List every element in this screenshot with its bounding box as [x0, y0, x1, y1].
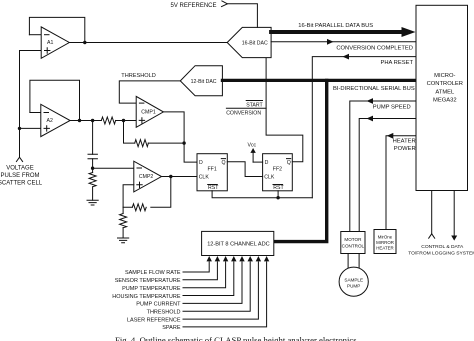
wire CMP1 output to FF1 D [163, 112, 197, 162]
wire ADC input 2 sensor temperature [183, 256, 220, 280]
svg-text:16-Bit DAC: 16-Bit DAC [242, 40, 268, 46]
wire CMP2 non-inverting input [123, 185, 134, 208]
svg-text:12-BIT 8 CHANNEL ADC: 12-BIT 8 CHANNEL ADC [207, 241, 269, 247]
dac U3 12-bit [180, 66, 222, 96]
svg-text:SCATTER CELL: SCATTER CELL [0, 180, 43, 186]
svg-text:5V REFERENCE: 5V REFERENCE [171, 3, 217, 9]
svg-text:Q: Q [222, 160, 226, 166]
svg-text:CONTROLER: CONTROLER [427, 81, 463, 87]
svg-text:MEGA32: MEGA32 [433, 98, 457, 104]
svg-text:D: D [199, 160, 203, 166]
wire ADC input 5 pump current [183, 256, 245, 303]
capacitor C1 [88, 121, 97, 169]
wire control and data to logging system [429, 191, 458, 241]
wire start conversion stub [226, 107, 266, 109]
svg-text:SAMPLE FLOW RATE: SAMPLE FLOW RATE [125, 270, 181, 276]
svg-text:CONTROL & DATA: CONTROL & DATA [421, 244, 464, 250]
ground GND2 [118, 238, 129, 243]
wire conversion completed [271, 39, 416, 52]
svg-text:PUMP: PUMP [347, 284, 360, 289]
wire motor control second [359, 116, 416, 232]
wire ADC input 3 pump temperature [183, 256, 228, 288]
wire ADC input 6 threshold [183, 256, 253, 311]
svg-text:CONTROL: CONTROL [342, 244, 365, 249]
svg-text:A2: A2 [47, 118, 53, 124]
wire PHA reset [312, 54, 416, 198]
svg-text:PUMP TEMPERATURE: PUMP TEMPERATURE [122, 286, 181, 292]
svg-text:START: START [246, 102, 263, 108]
dac U2 16-bit [227, 27, 271, 57]
node A1 output junction [83, 41, 86, 44]
adc U4 12-bit 8 channel [202, 231, 274, 255]
wire RC node to CMP2 inverting input [93, 167, 134, 169]
svg-text:Fig. 4. Outline schematic of: Fig. 4. Outline schematic of CLASP pulse… [115, 335, 357, 341]
svg-text:BI-DIRECTIONAL SERIAL BUS: BI-DIRECTIONAL SERIAL BUS [333, 86, 415, 92]
wire A2 output [70, 120, 136, 122]
wire ADC input 4 housing temperature [183, 256, 237, 296]
label control and data [408, 244, 474, 257]
wire CMP2 output to FF1 CLK [162, 176, 198, 178]
wire FF1 Q to FF2 CLK [227, 162, 262, 177]
op-amp A2 [41, 104, 70, 136]
wire ADC input 1 sample flow rate [183, 256, 212, 272]
resistor R5 [120, 207, 127, 238]
svg-text:A1: A1 [47, 40, 53, 46]
svg-text:RST: RST [208, 185, 219, 191]
resistor R1 [101, 117, 115, 124]
node RC junction [91, 167, 94, 170]
sample pump [339, 267, 368, 296]
svg-text:THRESHOLD: THRESHOLD [121, 73, 156, 79]
resistor R3 [135, 140, 149, 147]
svg-text:MirOne: MirOne [378, 234, 393, 239]
svg-text:FF1: FF1 [208, 167, 217, 173]
bus 16-bit parallel data [271, 23, 415, 37]
wire A1 feedback [29, 17, 84, 42]
svg-text:PUMP CURRENT: PUMP CURRENT [136, 302, 181, 308]
wire A1 inverting input [29, 34, 41, 36]
motor controller box [341, 232, 365, 254]
svg-text:PUMP SPEED: PUMP SPEED [373, 105, 411, 111]
microcontroller U5 [416, 5, 468, 190]
bus bi-directional serial [222, 80, 416, 241]
svg-text:12-Bit DAC: 12-Bit DAC [191, 79, 217, 85]
svg-text:HEATER: HEATER [393, 139, 416, 145]
svg-text:CMP1: CMP1 [141, 110, 156, 116]
wire reset rail to FF1 FF2 RST [212, 191, 312, 198]
svg-text:RST: RST [273, 185, 284, 191]
wire CMP1 feedback [124, 121, 185, 144]
node CMP1 feedback junction [182, 141, 185, 144]
node A2 feedback junction [78, 119, 81, 122]
svg-text:Q: Q [287, 160, 291, 166]
svg-text:CONVERSION: CONVERSION [226, 111, 261, 117]
comparator CMP1 [136, 96, 163, 127]
wire 5V reference to 16-bit DAC [222, 1, 258, 28]
svg-text:ATMEL: ATMEL [435, 89, 455, 95]
wire ADC input 8 spare [183, 256, 269, 327]
svg-text:PHA RESET: PHA RESET [380, 60, 413, 66]
svg-text:MOTOR: MOTOR [344, 237, 362, 242]
flip-flop FF1 [197, 154, 227, 191]
wire pump speed [350, 98, 416, 231]
svg-text:CLK: CLK [264, 175, 275, 181]
wire input signal [16, 51, 22, 162]
svg-text:SPARE: SPARE [162, 325, 181, 331]
flip-flop FF2 [263, 154, 293, 191]
label voltage pulse from scatter cell [0, 165, 43, 186]
svg-text:THRESHOLD: THRESHOLD [147, 310, 181, 316]
wire CMP2 feedback [123, 177, 171, 208]
wire A2 non-inverting input [20, 127, 41, 129]
wire A1 non-inverting input [20, 50, 42, 52]
svg-text:POWER: POWER [394, 146, 416, 152]
svg-text:SAMPLE: SAMPLE [344, 277, 363, 282]
svg-text:SENSOR TEMPERATURE: SENSOR TEMPERATURE [115, 278, 181, 284]
mirror heater box [374, 230, 396, 254]
svg-text:CLK: CLK [199, 175, 210, 181]
svg-text:TO/FROM LOGGING SYSTEM: TO/FROM LOGGING SYSTEM [408, 251, 474, 257]
svg-text:CONVERSION COMPLETED: CONVERSION COMPLETED [336, 45, 413, 51]
wire ADC input 7 laser reference [183, 256, 261, 319]
wire A2 inverting input [30, 112, 41, 114]
svg-text:MIRROR: MIRROR [376, 240, 394, 245]
resistor R2 [89, 168, 96, 200]
node reset rail junction [276, 196, 279, 199]
svg-text:HEATER: HEATER [376, 246, 393, 251]
svg-text:PULSE FROM: PULSE FROM [0, 173, 39, 179]
Vcc supply [248, 143, 257, 162]
wire heater power [386, 133, 416, 230]
resistor R4 [132, 204, 146, 211]
label START CONVERSION [226, 102, 263, 116]
node CMP2 output junction [169, 175, 172, 178]
wire FF2 Q to start conversion [266, 58, 303, 162]
svg-text:LASER REFERENCE: LASER REFERENCE [127, 317, 181, 323]
svg-text:CMP2: CMP2 [139, 174, 154, 180]
svg-text:D: D [265, 160, 269, 166]
svg-text:MICRO-: MICRO- [434, 73, 455, 79]
wire A2 feedback [30, 80, 80, 120]
svg-text:Vcc: Vcc [248, 143, 257, 149]
comparator CMP2 [134, 161, 162, 192]
svg-text:16-Bit PARALLEL DATA BUS: 16-Bit PARALLEL DATA BUS [298, 23, 373, 29]
wire Vcc to FF2 D [253, 161, 263, 163]
svg-text:VOLTAGE: VOLTAGE [6, 165, 33, 171]
node CMP1 input junction [122, 119, 125, 122]
wire A1 output to 16-bit DAC [69, 42, 227, 44]
node capacitor branch junction [91, 119, 94, 122]
svg-text:HOUSING TEMPERATURE: HOUSING TEMPERATURE [112, 294, 181, 300]
ground GND1 [87, 200, 98, 205]
op-amp A1 [41, 27, 69, 58]
wire motor control to sample pump [348, 254, 359, 269]
overline of START [246, 100, 262, 102]
node input junction A2+ [18, 127, 21, 130]
svg-text:FF2: FF2 [273, 167, 282, 173]
wire threshold from 12-bit DAC to CMP1 [119, 81, 180, 103]
